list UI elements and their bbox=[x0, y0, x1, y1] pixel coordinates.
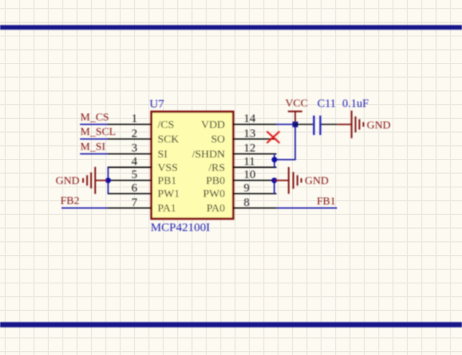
svg-text:M_CS: M_CS bbox=[80, 111, 109, 123]
pin 7 PA1 bbox=[108, 195, 177, 215]
junction pins11-12 tie bbox=[272, 157, 278, 163]
pin 8 PA0 bbox=[206, 195, 276, 215]
svg-text:C11: C11 bbox=[317, 98, 336, 110]
svg-text:8: 8 bbox=[244, 195, 250, 209]
svg-text:9: 9 bbox=[244, 180, 250, 194]
wire net M_SI bbox=[80, 153, 108, 155]
pin 13 SO bbox=[211, 126, 277, 146]
no-connect X on pin 13 bbox=[267, 131, 280, 143]
wire net M_CS bbox=[80, 123, 108, 125]
svg-text:0.1uF: 0.1uF bbox=[342, 98, 369, 110]
junction pin5 GND bbox=[105, 178, 111, 184]
svg-text:VCC: VCC bbox=[285, 98, 308, 110]
svg-text:3: 3 bbox=[131, 141, 137, 155]
svg-text:10: 10 bbox=[244, 167, 256, 181]
wire net M_SCL bbox=[80, 138, 108, 140]
wire vertical joining pin12 and pin11 bbox=[273, 154, 275, 167]
svg-text:SCK: SCK bbox=[158, 134, 179, 146]
svg-text:6: 6 bbox=[131, 180, 137, 194]
wire net FB1 bbox=[277, 207, 338, 209]
svg-text:1: 1 bbox=[131, 111, 137, 125]
svg-text:FB2: FB2 bbox=[60, 195, 79, 207]
svg-text:MCP42100I: MCP42100I bbox=[151, 220, 210, 234]
svg-text:/CS: /CS bbox=[158, 119, 175, 131]
svg-text:FB1: FB1 bbox=[317, 196, 336, 208]
pin 6 PW1 bbox=[108, 180, 180, 200]
junction VCC pin14 bbox=[293, 122, 299, 128]
svg-text:PA0: PA0 bbox=[206, 203, 225, 215]
pin 12 /SHDN bbox=[192, 141, 277, 161]
wire vertical joining pin10 and pin9 bbox=[273, 180, 275, 193]
junction pin10 GND bbox=[272, 178, 278, 184]
svg-text:PB1: PB1 bbox=[158, 175, 177, 187]
wire sheet border top line bbox=[0, 25, 462, 30]
svg-text:GND: GND bbox=[56, 175, 80, 187]
svg-text:/RS: /RS bbox=[208, 162, 225, 174]
power VCC symbol bbox=[288, 111, 302, 124]
wire net FB2 bbox=[62, 207, 108, 209]
pin 2 SCK bbox=[108, 126, 180, 146]
svg-text:PW0: PW0 bbox=[203, 188, 226, 200]
svg-text:4: 4 bbox=[131, 154, 137, 168]
svg-text:12: 12 bbox=[244, 141, 256, 155]
svg-text:SO: SO bbox=[211, 134, 225, 146]
svg-text:13: 13 bbox=[244, 126, 256, 140]
svg-text:GND: GND bbox=[367, 120, 391, 132]
pin 5 PB1 bbox=[108, 167, 177, 187]
svg-text:SI: SI bbox=[158, 148, 168, 160]
wire pin14 to VCC junction bbox=[277, 123, 296, 125]
ground GND right of C11 bbox=[338, 111, 364, 139]
svg-text:PW1: PW1 bbox=[158, 188, 180, 200]
svg-text:/SHDN: /SHDN bbox=[192, 148, 225, 160]
svg-text:U7: U7 bbox=[150, 97, 165, 111]
svg-text:11: 11 bbox=[244, 154, 256, 168]
pin 10 PB0 bbox=[206, 167, 276, 187]
svg-text:VDD: VDD bbox=[201, 119, 225, 131]
pin 14 VDD bbox=[201, 111, 276, 131]
pin 9 PW0 bbox=[203, 180, 277, 200]
pin 11 /RS bbox=[208, 154, 276, 174]
ground GND left of pin 5 bbox=[83, 167, 107, 194]
svg-text:7: 7 bbox=[131, 195, 137, 209]
svg-text:PB0: PB0 bbox=[206, 175, 225, 187]
svg-text:5: 5 bbox=[131, 167, 137, 181]
svg-text:M_SCL: M_SCL bbox=[80, 126, 116, 138]
svg-text:VSS: VSS bbox=[158, 162, 178, 174]
wire VCC junction to C11 left plate bbox=[295, 123, 313, 125]
wire C11 right plate to GND bbox=[321, 123, 338, 125]
wire VCC junction down-left to pins 11-12 bbox=[274, 124, 295, 159]
svg-text:M_SI: M_SI bbox=[80, 141, 105, 153]
wire pins 4-5-6 to GND vertical bbox=[107, 167, 109, 193]
ground GND at pins 9-10 bbox=[274, 167, 301, 194]
wire sheet border bottom line bbox=[0, 322, 462, 327]
pin 3 SI bbox=[108, 141, 168, 161]
IC U7 MCP42100I body bbox=[151, 112, 233, 219]
pin 1 /CS bbox=[108, 111, 175, 131]
svg-text:PA1: PA1 bbox=[158, 203, 177, 215]
capacitor C11 plates bbox=[314, 116, 320, 135]
svg-text:14: 14 bbox=[244, 111, 256, 125]
pin 4 VSS bbox=[108, 154, 178, 174]
svg-text:GND: GND bbox=[305, 175, 329, 187]
svg-text:2: 2 bbox=[131, 126, 137, 140]
